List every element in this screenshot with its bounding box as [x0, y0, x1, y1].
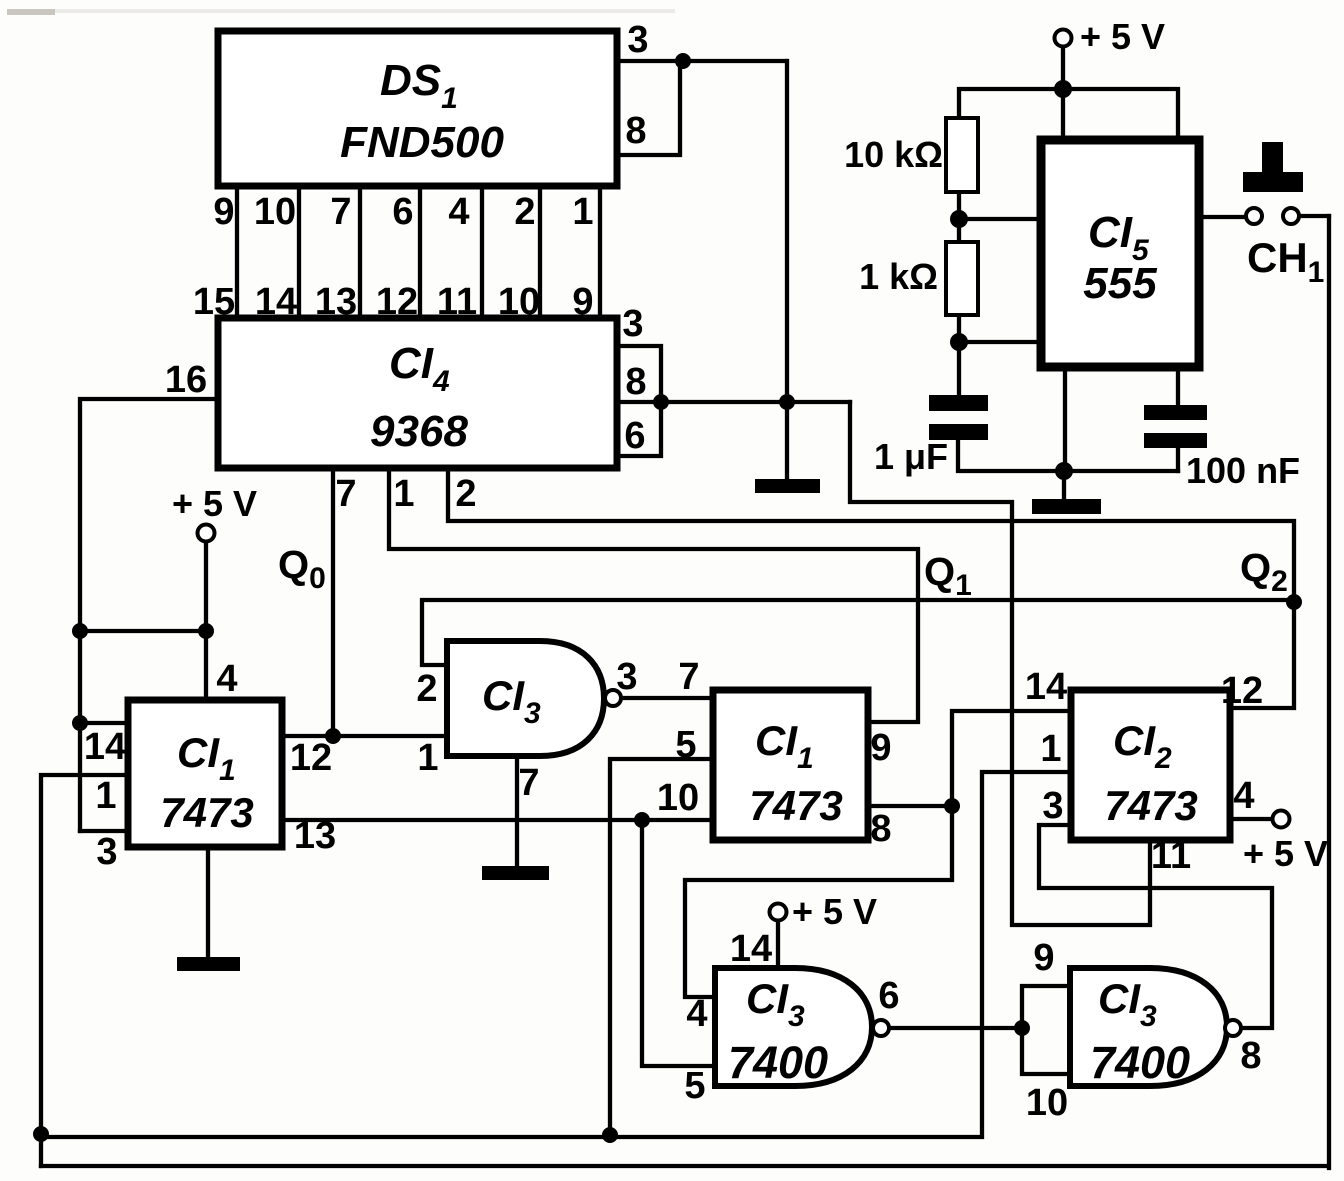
+5V terminal left: [198, 525, 215, 542]
connector DS1-CI4 pin lines: [237, 186, 600, 318]
svg-text:7: 7: [330, 191, 351, 233]
wire CI4 pin16 to left rail: [80, 399, 220, 831]
svg-text:7: 7: [518, 762, 539, 804]
svg-text:16: 16: [165, 359, 207, 401]
svg-text:3: 3: [622, 303, 643, 345]
resistor 1k: [946, 242, 978, 315]
wire 1uF bottom to ground junction: [958, 438, 1178, 471]
svg-text:12: 12: [290, 737, 332, 779]
svg-text:13: 13: [315, 281, 357, 323]
timer CI5 555 box: [1041, 140, 1199, 367]
wire CI1 ground stub: [206, 847, 210, 957]
ground bar CI1: [177, 957, 240, 971]
wire Q1 CI4 pin1 to CI1b pin9: [389, 468, 918, 722]
svg-text:9368: 9368: [370, 407, 468, 456]
svg-text:14: 14: [84, 726, 126, 768]
svg-text:1: 1: [572, 191, 593, 233]
+5V terminal CI3b: [770, 904, 787, 921]
svg-text:1: 1: [1040, 728, 1061, 770]
nand gate CI3 7400 (bottom right): [1070, 968, 1227, 1086]
wire CI1 pin14 stub: [80, 721, 128, 725]
ground stub under DS1 junction: [785, 402, 789, 479]
svg-text:5: 5: [675, 724, 696, 766]
svg-text:3: 3: [627, 19, 648, 61]
svg-text:100 nF: 100 nF: [1186, 450, 1300, 491]
svg-text:4: 4: [686, 993, 707, 1035]
svg-text:7473: 7473: [1104, 782, 1197, 829]
wire bottom second bus to CH1: [41, 216, 1329, 1168]
wire Q2 line to CI3a pin2: [422, 600, 1294, 665]
svg-text:8: 8: [625, 361, 646, 403]
wire CI3a output to CI1b pin7: [620, 696, 713, 700]
wire CI1b pin8 node: [868, 804, 952, 808]
svg-text:3: 3: [96, 831, 117, 873]
svg-text:1 kΩ: 1 kΩ: [859, 256, 938, 297]
wire +5V top to 555 rail: [959, 47, 1178, 136]
wire CI1 pin3 stub: [80, 829, 128, 833]
svg-text:11: 11: [1151, 835, 1191, 877]
capacitor 1uF plates: [929, 395, 988, 411]
wire CI1 pin13 to CI1b pin10: [282, 818, 713, 822]
wire 555 ground pins: [1064, 367, 1065, 499]
svg-text:14: 14: [1025, 666, 1067, 708]
wire CH1 right contact to right rail: [1298, 214, 1329, 218]
svg-text:15: 15: [193, 281, 235, 323]
wire Q2 junction to CI2 pin12: [1232, 602, 1294, 708]
svg-text:3: 3: [616, 656, 637, 698]
wire pin8 node down to CI3b pin4: [685, 806, 952, 997]
decoder CI4 box: [218, 318, 617, 468]
svg-text:6: 6: [392, 191, 413, 233]
wire +5V to CI1 pin4: [204, 541, 208, 700]
svg-text:+ 5 V: + 5 V: [172, 483, 257, 524]
+5V terminal CI2 pin4: [1273, 811, 1290, 828]
svg-text:8: 8: [870, 808, 891, 850]
svg-text:6: 6: [878, 975, 899, 1017]
svg-text:3: 3: [1042, 785, 1063, 827]
wire 555 output to CH1: [1203, 215, 1246, 219]
bubble pin6: [873, 1020, 889, 1036]
svg-text:7: 7: [335, 473, 356, 515]
svg-text:1: 1: [393, 473, 414, 515]
svg-text:5: 5: [684, 1065, 705, 1107]
svg-text:2: 2: [455, 473, 476, 515]
flip-flop CI1 box (middle): [713, 690, 868, 840]
svg-text:7473: 7473: [160, 789, 253, 836]
svg-text:9: 9: [870, 727, 891, 769]
svg-text:6: 6: [624, 415, 645, 457]
CH1 contact circles: [1246, 208, 1262, 224]
wire DS1 pin8 bracket: [618, 61, 680, 155]
svg-text:13: 13: [294, 815, 336, 857]
junction dots: [675, 53, 691, 69]
wire node down to CI4-right junction: [785, 61, 789, 402]
wire CI3a pin7 ground stub: [515, 755, 519, 866]
svg-text:4: 4: [1233, 775, 1254, 817]
wire Q0 CI4 pin7 down: [331, 468, 335, 736]
wire CI3c input bracket pins 9-10: [1022, 986, 1070, 1074]
svg-text:4: 4: [216, 658, 237, 700]
svg-text:8: 8: [625, 110, 646, 152]
svg-text:7400: 7400: [728, 1037, 828, 1088]
svg-text:10: 10: [498, 281, 540, 323]
svg-text:10: 10: [1026, 1082, 1068, 1124]
resistor 10k: [946, 118, 978, 192]
svg-text:9: 9: [572, 281, 593, 323]
svg-text:+ 5 V: + 5 V: [792, 891, 877, 932]
wire CI2 pin4 stub: [1232, 817, 1271, 821]
nand gate CI3 7400 (bottom left): [715, 968, 872, 1086]
wire pin8 node up to CI2 pin14: [952, 711, 1071, 806]
svg-text:14: 14: [730, 928, 772, 970]
svg-text:10: 10: [254, 191, 296, 233]
wire left rail to +5V rail: [80, 629, 206, 633]
pushbutton CH1 symbol: [1262, 142, 1283, 176]
svg-text:2: 2: [416, 668, 437, 710]
nand gate CI3 output bubble pin3: [605, 690, 621, 706]
wire pin13 node down to CI3b pin5: [642, 820, 715, 1066]
wire CI1 pin12 to CI3a pin1: [282, 734, 447, 738]
svg-text:1: 1: [95, 775, 116, 817]
svg-text:9: 9: [213, 191, 234, 233]
svg-text:7: 7: [678, 656, 699, 698]
wire Q2 CI4 pin2 to junction: [448, 468, 1294, 602]
wire 1k bottom junction to 555: [959, 313, 1042, 397]
svg-text:9: 9: [1033, 937, 1054, 979]
svg-text:10: 10: [657, 777, 699, 819]
svg-text:10 kΩ: 10 kΩ: [844, 134, 943, 175]
+5V terminal top: [1055, 30, 1072, 47]
svg-text:11: 11: [437, 281, 477, 323]
flip-flop CI2 box: [1071, 690, 1230, 840]
svg-text:+ 5 V: + 5 V: [1080, 16, 1165, 57]
svg-text:1: 1: [417, 737, 438, 779]
wire CI3b +5V stub: [776, 920, 780, 966]
ground bar 555: [1032, 499, 1101, 514]
bubble pin8: [1225, 1020, 1241, 1036]
svg-text:FND500: FND500: [340, 118, 504, 167]
display DS1 box: [218, 31, 617, 186]
wire CI1 pin1 to far-left rail: [41, 775, 128, 1166]
svg-text:7400: 7400: [1090, 1037, 1190, 1088]
svg-text:7473: 7473: [749, 782, 842, 829]
scan noise streak top: [35, 9, 675, 13]
wire CI1b pin5 down to bus: [610, 759, 713, 1135]
wire CI2 pin3 to CI3c output: [1039, 825, 1272, 1028]
wire route to CI2 pin11: [850, 402, 1150, 925]
wire DS1 pin3 to node: [618, 59, 786, 63]
wire CI3b output to CI3c inputs: [889, 1026, 1022, 1030]
wire CI4 pin3 pin8 pin6 bracket: [618, 346, 661, 456]
svg-text:12: 12: [376, 281, 418, 323]
wire CI4 right to route: [661, 400, 850, 404]
svg-text:4: 4: [448, 191, 469, 233]
wire 10k to 1k junction: [959, 190, 1042, 244]
svg-text:8: 8: [1240, 1035, 1261, 1077]
svg-text:1 μF: 1 μF: [874, 436, 948, 477]
wire 555 pin to 100nF: [1176, 367, 1180, 471]
wire CI2 pin1 to bottom bus: [41, 772, 1071, 1137]
svg-text:2: 2: [514, 191, 535, 233]
svg-text:12: 12: [1221, 670, 1263, 712]
nand gate CI3 (top): [447, 641, 604, 756]
svg-text:+ 5 V: + 5 V: [1243, 833, 1328, 874]
flip-flop CI1 box (left): [128, 700, 282, 847]
ground bar under DS1 junction: [755, 479, 820, 493]
ground bar CI3a: [482, 866, 549, 880]
capacitor 100nF plates: [1144, 405, 1207, 420]
svg-text:14: 14: [255, 281, 297, 323]
svg-text:555: 555: [1083, 259, 1157, 308]
